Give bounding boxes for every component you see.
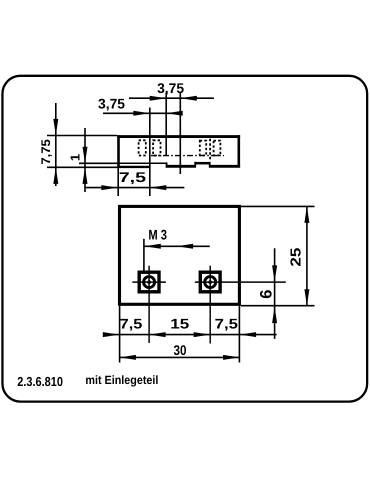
svg-text:15: 15: [170, 316, 189, 332]
svg-text:25: 25: [288, 248, 304, 267]
svg-text:M 3: M 3: [148, 226, 167, 242]
svg-text:1: 1: [68, 154, 83, 161]
svg-text:mit Einlegeteil: mit Einlegeteil: [85, 373, 158, 387]
svg-text:30: 30: [174, 342, 187, 358]
svg-text:7,75: 7,75: [39, 139, 53, 165]
svg-text:3,75: 3,75: [157, 80, 184, 96]
svg-text:7,5: 7,5: [120, 316, 143, 332]
svg-text:6: 6: [258, 290, 276, 299]
svg-text:2.3.6.810: 2.3.6.810: [17, 374, 63, 389]
svg-text:7,5: 7,5: [119, 169, 147, 185]
svg-text:3,75: 3,75: [98, 95, 125, 111]
svg-text:7,5: 7,5: [215, 316, 239, 332]
